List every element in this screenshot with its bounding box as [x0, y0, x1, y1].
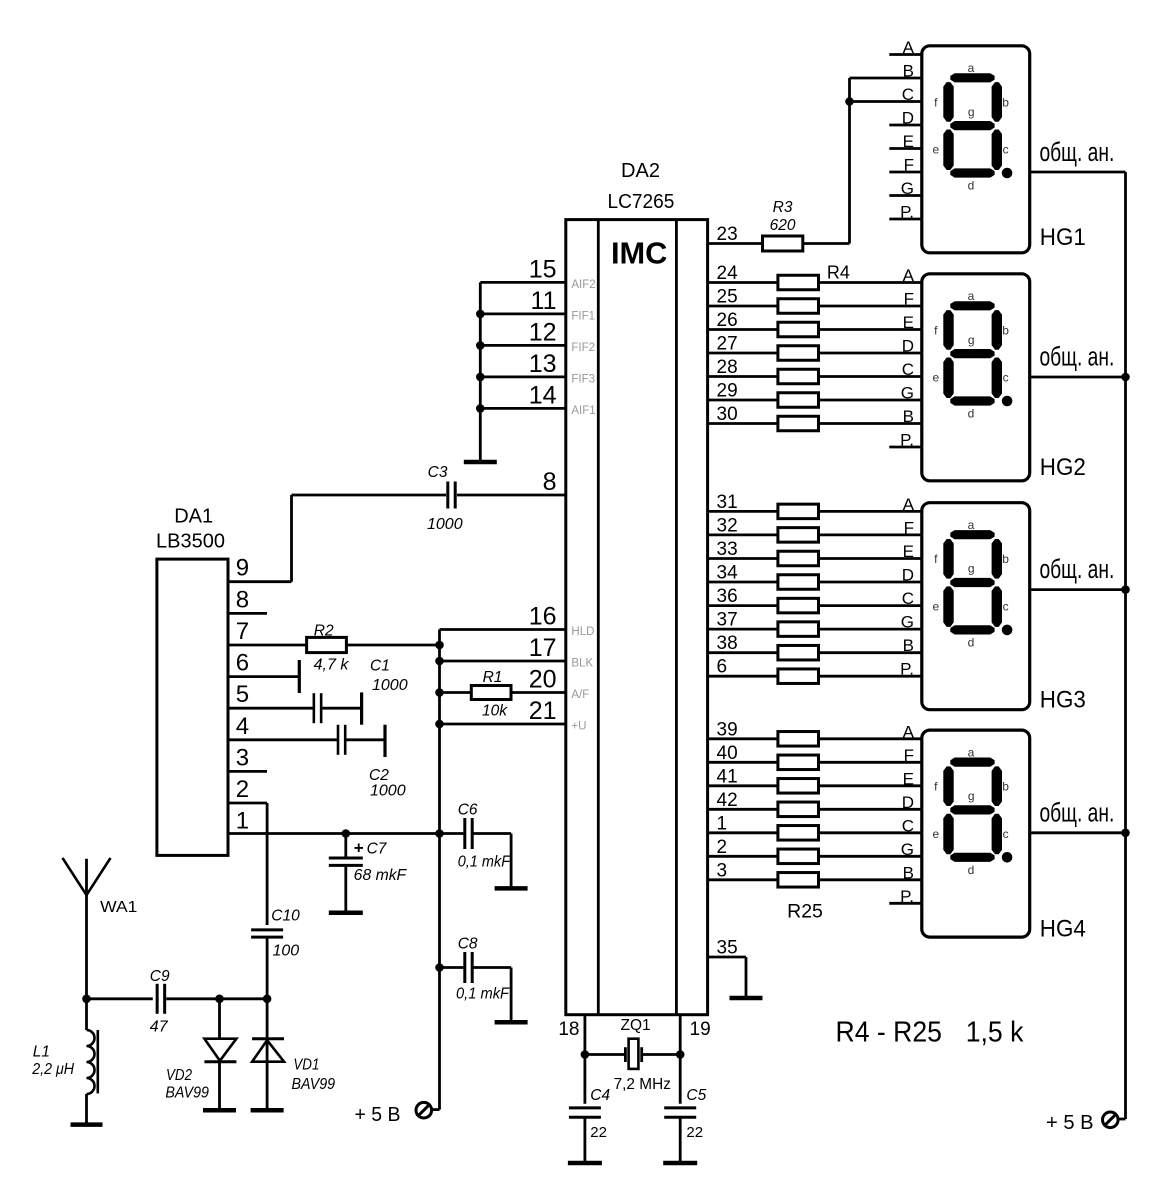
svg-text:21: 21 [529, 697, 557, 725]
svg-text:C6: C6 [458, 802, 478, 819]
svg-text:B: B [903, 407, 914, 426]
svg-text:6: 6 [236, 650, 249, 677]
svg-text:12: 12 [529, 318, 557, 346]
svg-text:HG3: HG3 [1040, 687, 1086, 714]
svg-text:+ 5 В: + 5 В [355, 1103, 401, 1126]
svg-text:C: C [902, 816, 914, 835]
svg-text:C9: C9 [150, 968, 170, 985]
svg-text:31: 31 [717, 492, 738, 513]
svg-text:c: c [1003, 143, 1009, 157]
svg-text:R1: R1 [483, 669, 503, 686]
svg-text:1,5 k: 1,5 k [966, 1017, 1024, 1049]
svg-text:16: 16 [529, 603, 557, 631]
svg-text:BAV99: BAV99 [292, 1076, 336, 1093]
svg-text:A: A [903, 495, 915, 514]
svg-text:+ 5 В: + 5 В [1046, 1111, 1094, 1134]
svg-text:3: 3 [236, 744, 249, 771]
svg-text:5: 5 [236, 681, 249, 708]
svg-text:68 mkF: 68 mkF [354, 867, 408, 884]
svg-text:E: E [903, 769, 914, 788]
svg-text:620: 620 [770, 217, 796, 234]
svg-text:a: a [968, 518, 975, 532]
svg-text:DA2: DA2 [621, 160, 660, 182]
svg-text:1: 1 [717, 813, 728, 834]
svg-text:47: 47 [150, 1018, 169, 1035]
svg-text:C10: C10 [271, 908, 300, 925]
svg-text:36: 36 [717, 586, 738, 607]
svg-text:D: D [902, 793, 914, 812]
svg-text:2,2 μH: 2,2 μH [31, 1061, 75, 1078]
svg-text:F: F [904, 518, 914, 537]
svg-text:15: 15 [529, 255, 557, 283]
svg-text:G: G [901, 384, 914, 403]
svg-text:C5: C5 [686, 1087, 706, 1104]
svg-text:BLK: BLK [571, 658, 593, 670]
svg-text:22: 22 [686, 1124, 703, 1141]
svg-text:C: C [902, 360, 914, 379]
svg-text:1000: 1000 [372, 677, 408, 694]
svg-text:общ. ан.: общ. ан. [1040, 554, 1115, 584]
svg-text:41: 41 [717, 766, 738, 787]
svg-text:29: 29 [717, 381, 738, 402]
svg-text:+U: +U [571, 721, 586, 733]
svg-text:D: D [902, 337, 914, 356]
svg-text:C7: C7 [367, 841, 388, 858]
svg-text:d: d [968, 863, 975, 877]
svg-text:A/F: A/F [571, 689, 589, 701]
svg-text:A: A [903, 722, 915, 741]
svg-text:0,1 mkF: 0,1 mkF [458, 854, 512, 871]
svg-text:HG2: HG2 [1040, 454, 1086, 481]
svg-text:27: 27 [717, 334, 738, 355]
svg-text:d: d [968, 407, 975, 421]
svg-text:d: d [968, 179, 975, 193]
svg-text:HG4: HG4 [1040, 916, 1086, 943]
svg-text:g: g [968, 105, 975, 119]
svg-text:общ. ан.: общ. ан. [1040, 137, 1115, 167]
svg-text:100: 100 [273, 943, 300, 960]
svg-text:VD1: VD1 [293, 1057, 319, 1074]
svg-text:B: B [903, 62, 914, 81]
svg-text:e: e [932, 371, 939, 385]
svg-text:C1: C1 [370, 658, 390, 675]
svg-text:10k: 10k [482, 703, 508, 720]
svg-text:38: 38 [717, 633, 738, 654]
svg-text:13: 13 [529, 350, 557, 378]
svg-text:35: 35 [717, 938, 738, 959]
svg-text:DA1: DA1 [174, 506, 213, 528]
svg-text:D: D [902, 566, 914, 585]
svg-text:F: F [904, 156, 914, 175]
svg-text:R25: R25 [787, 901, 823, 923]
svg-text:7,2 MHz: 7,2 MHz [614, 1076, 671, 1093]
svg-text:A: A [903, 266, 915, 285]
svg-text:g: g [968, 789, 975, 803]
svg-text:A: A [903, 38, 915, 57]
svg-text:P.: P. [900, 431, 914, 450]
svg-text:C3: C3 [428, 464, 448, 481]
svg-text:b: b [1002, 552, 1009, 566]
svg-text:общ. ан.: общ. ан. [1040, 342, 1115, 372]
svg-text:d: d [968, 636, 975, 650]
svg-text:P.: P. [900, 660, 914, 679]
svg-text:VD2: VD2 [166, 1067, 192, 1084]
svg-text:HLD: HLD [571, 626, 594, 638]
svg-text:1: 1 [236, 808, 249, 835]
svg-text:g: g [968, 333, 975, 347]
svg-text:FIF2: FIF2 [571, 342, 595, 354]
svg-text:E: E [903, 132, 914, 151]
svg-text:14: 14 [529, 381, 557, 409]
svg-text:B: B [903, 863, 914, 882]
svg-text:11: 11 [531, 287, 557, 315]
svg-text:42: 42 [717, 790, 738, 811]
svg-text:20: 20 [529, 666, 557, 694]
svg-text:BAV99: BAV99 [165, 1085, 209, 1102]
svg-text:1000: 1000 [370, 783, 406, 800]
svg-text:40: 40 [717, 743, 738, 764]
svg-text:a: a [968, 61, 975, 75]
svg-text:R3: R3 [773, 199, 793, 216]
svg-text:P.: P. [900, 203, 914, 222]
svg-text:28: 28 [717, 357, 738, 378]
svg-text:P.: P. [900, 887, 914, 906]
svg-text:34: 34 [717, 563, 739, 584]
svg-text:24: 24 [717, 263, 739, 284]
svg-text:b: b [1002, 323, 1009, 337]
svg-text:33: 33 [717, 539, 738, 560]
svg-text:c: c [1003, 371, 1009, 385]
svg-text:1000: 1000 [427, 516, 463, 533]
svg-text:общ. ан.: общ. ан. [1040, 798, 1115, 828]
svg-text:AIF2: AIF2 [571, 279, 595, 291]
svg-text:4,7 k: 4,7 k [314, 657, 350, 674]
svg-text:R2: R2 [314, 623, 334, 640]
svg-text:32: 32 [717, 515, 738, 536]
svg-text:G: G [901, 613, 914, 632]
svg-text:C: C [902, 589, 914, 608]
svg-text:17: 17 [529, 634, 557, 662]
svg-text:30: 30 [717, 404, 738, 425]
svg-text:AIF1: AIF1 [571, 405, 595, 417]
svg-text:F: F [904, 290, 914, 309]
svg-text:c: c [1003, 600, 1009, 614]
svg-text:IMC: IMC [611, 236, 667, 271]
svg-text:R4 - R25: R4 - R25 [836, 1017, 942, 1049]
svg-text:C4: C4 [590, 1087, 610, 1104]
svg-text:C8: C8 [458, 935, 478, 952]
svg-text:E: E [903, 542, 914, 561]
svg-text:D: D [902, 109, 914, 128]
svg-text:2: 2 [236, 776, 249, 803]
svg-text:LC7265: LC7265 [608, 191, 675, 213]
svg-text:e: e [932, 143, 939, 157]
svg-text:e: e [932, 827, 939, 841]
svg-text:a: a [968, 289, 975, 303]
svg-text:3: 3 [717, 860, 728, 881]
svg-text:6: 6 [717, 657, 728, 678]
svg-text:c: c [1003, 827, 1009, 841]
svg-text:8: 8 [543, 468, 557, 496]
svg-text:22: 22 [590, 1124, 607, 1141]
svg-text:b: b [1002, 95, 1009, 109]
svg-text:9: 9 [236, 555, 249, 582]
svg-text:39: 39 [717, 719, 738, 740]
svg-text:FIF3: FIF3 [571, 374, 595, 386]
svg-text:F: F [904, 746, 914, 765]
svg-text:C: C [902, 85, 914, 104]
svg-text:4: 4 [236, 713, 249, 740]
svg-text:8: 8 [236, 586, 249, 613]
svg-text:b: b [1002, 780, 1009, 794]
svg-text:23: 23 [717, 224, 738, 245]
svg-text:37: 37 [717, 610, 738, 631]
svg-text:+: + [354, 838, 364, 857]
svg-text:0,1 mkF: 0,1 mkF [456, 986, 510, 1003]
svg-text:HG1: HG1 [1040, 224, 1086, 251]
svg-text:g: g [968, 562, 975, 576]
svg-text:B: B [903, 636, 914, 655]
svg-text:7: 7 [236, 618, 249, 645]
svg-text:e: e [932, 600, 939, 614]
svg-text:G: G [901, 179, 914, 198]
svg-text:R4: R4 [827, 263, 850, 283]
svg-text:ZQ1: ZQ1 [621, 1017, 651, 1034]
svg-text:26: 26 [717, 310, 738, 331]
svg-text:a: a [968, 745, 975, 759]
svg-text:25: 25 [717, 287, 738, 308]
svg-text:FIF1: FIF1 [571, 311, 595, 323]
svg-text:G: G [901, 840, 914, 859]
svg-text:2: 2 [717, 837, 728, 858]
svg-text:WA1: WA1 [100, 899, 137, 916]
svg-text:19: 19 [690, 1019, 711, 1040]
svg-text:L1: L1 [33, 1043, 50, 1060]
svg-text:E: E [903, 313, 914, 332]
svg-text:18: 18 [558, 1019, 579, 1040]
svg-text:C2: C2 [369, 767, 389, 784]
svg-text:LB3500: LB3500 [156, 531, 225, 553]
